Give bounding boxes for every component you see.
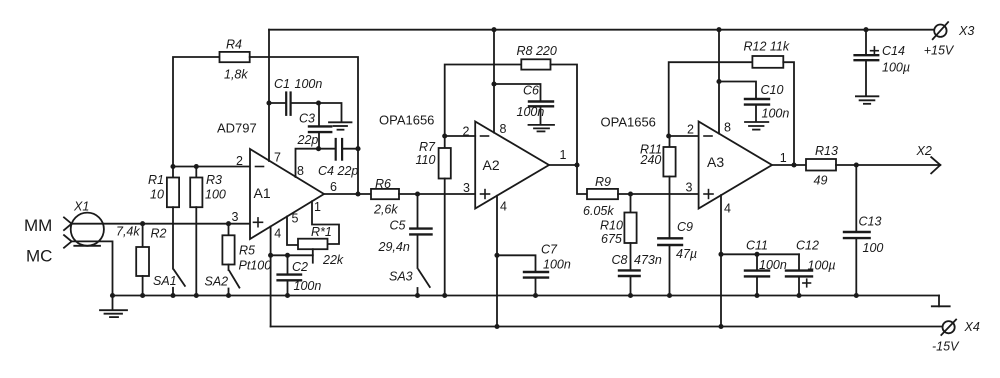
node junction SA1 ground [170, 293, 175, 298]
terminal X2 output arrow [916, 144, 941, 173]
node junction C12 ground [796, 293, 801, 298]
svg-text:100n: 100n [543, 258, 571, 272]
svg-text:R5: R5 [239, 244, 255, 258]
svg-text:29,4n: 29,4n [378, 240, 410, 254]
wire +15V top rail [269, 29, 935, 31]
svg-text:5: 5 [292, 212, 299, 226]
svg-text:SA3: SA3 [389, 270, 413, 284]
svg-text:22p: 22p [297, 133, 319, 147]
node junction output/R4 [355, 191, 360, 196]
resistor R6 2,6k [371, 177, 475, 217]
wire A1 pin8 [296, 149, 319, 177]
svg-text:R13: R13 [815, 144, 838, 158]
svg-text:7: 7 [274, 151, 281, 165]
capacitor C14 100u [855, 30, 910, 95]
wire A2 pin4 to -15V [496, 196, 498, 327]
svg-text:C5: C5 [390, 219, 406, 233]
node junction R5 top [226, 221, 231, 226]
svg-text:MM: MM [24, 216, 52, 235]
svg-text:R8 220: R8 220 [517, 44, 557, 58]
svg-text:240: 240 [640, 153, 662, 167]
wire V- link to R*1 wiper [271, 254, 313, 256]
ground symbol at C14 [856, 96, 879, 104]
capacitor C11 100n [745, 239, 787, 296]
resistor R13 49 [806, 144, 940, 188]
node junction -15V rail at A3 pin4 [718, 324, 723, 329]
node junction A3 pin2 [666, 133, 671, 138]
node junction C1 right [316, 100, 321, 105]
svg-text:OPA1656: OPA1656 [601, 115, 656, 130]
ground symbol at C10 [745, 122, 768, 130]
svg-text:6.05k: 6.05k [583, 204, 614, 218]
svg-text:R10: R10 [600, 219, 623, 233]
node junction R2 top [140, 221, 145, 226]
op-amp A1 AD797 [217, 121, 324, 240]
svg-text:100µ: 100µ [882, 61, 910, 75]
svg-text:473n: 473n [634, 253, 662, 267]
svg-text:X1: X1 [73, 200, 89, 214]
svg-text:X4: X4 [964, 320, 980, 334]
svg-text:8: 8 [724, 121, 731, 135]
node junction on +15V rail at C14 [863, 27, 868, 32]
ground symbol near C1 [319, 103, 352, 130]
capacitor C2 100n [278, 255, 322, 295]
node junction R3 at pin2 [194, 164, 199, 169]
wire A2 output [549, 165, 587, 194]
capacitor C5 29,4n [378, 194, 432, 268]
svg-text:675: 675 [601, 232, 622, 246]
terminal X3 +15V [924, 22, 975, 57]
svg-text:2: 2 [236, 154, 243, 168]
capacitor C4 22p [318, 139, 358, 178]
node junction pin4 link [268, 253, 273, 258]
switch SA3 [389, 270, 430, 296]
svg-text:C4: C4 [318, 164, 334, 178]
resistor R8 220 feedback [445, 44, 577, 165]
node junction R7 ground [442, 293, 447, 298]
wire A1 pin5 [287, 217, 298, 246]
node junction C4 right [355, 146, 360, 151]
svg-text:C3: C3 [299, 112, 315, 126]
node junction A3 output [791, 162, 796, 167]
resistor R9 6.05k [583, 175, 699, 218]
svg-text:A3: A3 [707, 154, 724, 170]
svg-text:R12 11k: R12 11k [744, 40, 790, 54]
node junction C8 ground [628, 293, 633, 298]
svg-text:3: 3 [686, 181, 693, 195]
wire C11 C12 branch [721, 253, 799, 255]
resistor R3 100 [190, 167, 226, 296]
node junction C11 ground [754, 293, 759, 298]
svg-text:1: 1 [314, 200, 321, 214]
svg-text:OPA1656: OPA1656 [379, 113, 434, 128]
node junction C2 ground [285, 293, 290, 298]
svg-text:X3: X3 [958, 24, 974, 38]
svg-text:3: 3 [232, 210, 239, 224]
wire A1 pin7 supply [268, 30, 270, 161]
svg-text:100: 100 [863, 241, 884, 255]
node junction R6/C5 [415, 191, 420, 196]
wire A3 output [772, 164, 806, 166]
node junction C7 tap [494, 253, 499, 258]
node junction R2 bottom [140, 293, 145, 298]
svg-text:R2: R2 [151, 227, 167, 241]
capacitor C9 47u [658, 220, 697, 296]
resistor R4 1,8k feedback [173, 38, 358, 195]
wire A2 inverting input [445, 135, 476, 137]
node junction R1/R4 at pin2 [170, 164, 175, 169]
capacitor C13 100 [844, 165, 883, 296]
svg-text:R3: R3 [206, 173, 222, 187]
node junction C6 tap [491, 81, 496, 86]
node junction SA2 ground [226, 293, 231, 298]
wire A2 pin8 supply [493, 30, 495, 133]
ground symbol at input [100, 296, 127, 318]
svg-text:1: 1 [560, 148, 567, 162]
wire MC line to ground rail [72, 241, 113, 295]
svg-text:C9: C9 [677, 220, 693, 234]
node junction C13 top [854, 162, 859, 167]
svg-text:A1: A1 [254, 185, 271, 201]
node junction R9/R10 [628, 191, 633, 196]
capacitor C1 100n [269, 77, 322, 115]
svg-text:R4: R4 [226, 38, 242, 52]
svg-text:1: 1 [780, 151, 787, 165]
svg-text:C8: C8 [612, 253, 628, 267]
svg-text:6: 6 [330, 180, 337, 194]
wire A1 pin4 to -15V [270, 227, 272, 327]
wire A1 inverting input line [173, 166, 250, 168]
svg-text:R6: R6 [375, 177, 391, 191]
svg-text:A2: A2 [483, 157, 500, 173]
svg-text:8: 8 [297, 164, 304, 178]
svg-text:C1: C1 [274, 77, 290, 91]
svg-text:7,4k: 7,4k [116, 225, 140, 239]
svg-text:49: 49 [814, 174, 828, 188]
svg-text:C13: C13 [859, 215, 882, 229]
wire 0V ground rail [113, 295, 940, 297]
svg-text:R*1: R*1 [311, 225, 332, 239]
wire A3 pin4 to -15V [720, 195, 722, 326]
svg-text:100n: 100n [295, 77, 323, 91]
svg-text:100n: 100n [762, 107, 790, 121]
node junction C9 ground [667, 293, 672, 298]
node junction on +15V rail at A2 [491, 27, 496, 32]
svg-text:C6: C6 [523, 84, 539, 98]
svg-text:R9: R9 [595, 175, 611, 189]
svg-text:1,8k: 1,8k [224, 68, 248, 82]
svg-text:-15V: -15V [932, 340, 960, 354]
svg-text:R7: R7 [419, 140, 436, 154]
svg-text:R1: R1 [148, 173, 164, 187]
wire -15V bottom rail [271, 326, 943, 328]
svg-text:22k: 22k [322, 253, 344, 267]
capacitor C12 100u [786, 239, 836, 296]
svg-text:Pt100: Pt100 [239, 259, 272, 273]
svg-text:4: 4 [500, 200, 507, 214]
svg-text:110: 110 [416, 153, 436, 167]
svg-text:8: 8 [500, 122, 507, 136]
svg-text:C10: C10 [761, 83, 784, 97]
capacitor C10 100n [719, 82, 789, 122]
resistor R7 110 [416, 136, 451, 296]
capacitor C8 473n [612, 253, 662, 296]
node junction A2 pin2 [442, 133, 447, 138]
svg-text:C12: C12 [796, 239, 819, 253]
svg-text:10: 10 [150, 188, 164, 202]
svg-text:100: 100 [205, 188, 226, 202]
wire A3 pin8 supply [718, 30, 720, 134]
svg-text:SA1: SA1 [153, 274, 177, 288]
svg-text:100n: 100n [759, 258, 787, 272]
svg-text:C11: C11 [746, 239, 768, 253]
node junction C7 ground [533, 293, 538, 298]
terminal X4 -15V [932, 320, 980, 354]
svg-text:22p: 22p [337, 164, 359, 178]
svg-text:C2: C2 [292, 260, 308, 274]
resistor R1 10 [148, 167, 179, 269]
switch SA1 [153, 270, 185, 296]
resistor R12 11k feedback [669, 40, 794, 166]
svg-text:MC: MC [26, 247, 52, 266]
node junction C3 bottom [316, 146, 321, 151]
node junction C13 ground [854, 293, 859, 298]
resistor R2 7,4k [116, 224, 167, 296]
op-amp A2 [475, 122, 549, 209]
wire MM input line X1 to A1 pin3 [72, 223, 250, 225]
resistor R*1 22k [298, 225, 344, 267]
switch SA2 [205, 271, 240, 296]
capacitor C6 100n [494, 84, 553, 124]
ground symbol at C6 [529, 125, 555, 131]
svg-text:4: 4 [274, 227, 281, 241]
connector X1 [64, 200, 104, 248]
node junction on +15V rail at A3 [716, 27, 721, 32]
resistor R10 675 [600, 194, 637, 270]
svg-text:100µ: 100µ [808, 259, 836, 273]
wire A1 output to A2 [324, 193, 371, 195]
resistor R5 Pt100 [222, 224, 271, 273]
svg-text:100n: 100n [294, 279, 322, 293]
capacitor C3 22p [297, 103, 332, 149]
capacitor C7 100n [497, 243, 571, 296]
node junction C1 left [266, 100, 271, 105]
node junction C11 top [754, 252, 759, 257]
svg-text:2: 2 [687, 123, 694, 137]
svg-text:2,6k: 2,6k [373, 203, 398, 217]
svg-text:C7: C7 [541, 243, 558, 257]
svg-text:3: 3 [463, 181, 470, 195]
svg-text:SA2: SA2 [205, 275, 229, 289]
op-amp A3 [699, 122, 772, 209]
wire A1 pin1 [312, 201, 339, 244]
node junction -15V rail at A2 pin4 [494, 324, 499, 329]
svg-text:X2: X2 [916, 144, 932, 158]
svg-text:100n: 100n [517, 105, 545, 119]
node junction A2 output [574, 162, 579, 167]
node junction C11/C12 tap [718, 252, 723, 257]
ground rail end stub [938, 296, 940, 307]
svg-text:C14: C14 [882, 44, 905, 58]
svg-text:AD797: AD797 [217, 121, 257, 136]
resistor R11 240 [640, 136, 676, 238]
svg-text:4: 4 [724, 202, 731, 216]
svg-text:47µ: 47µ [676, 247, 697, 261]
node junction R3 ground [194, 293, 199, 298]
node junction MC/ground rail [110, 293, 115, 298]
node junction C2 top [285, 253, 290, 258]
svg-text:+15V: +15V [924, 44, 955, 58]
node junction SA3 ground [415, 293, 420, 298]
node junction C10 tap [716, 79, 721, 84]
wire A3 inverting input [669, 135, 699, 137]
